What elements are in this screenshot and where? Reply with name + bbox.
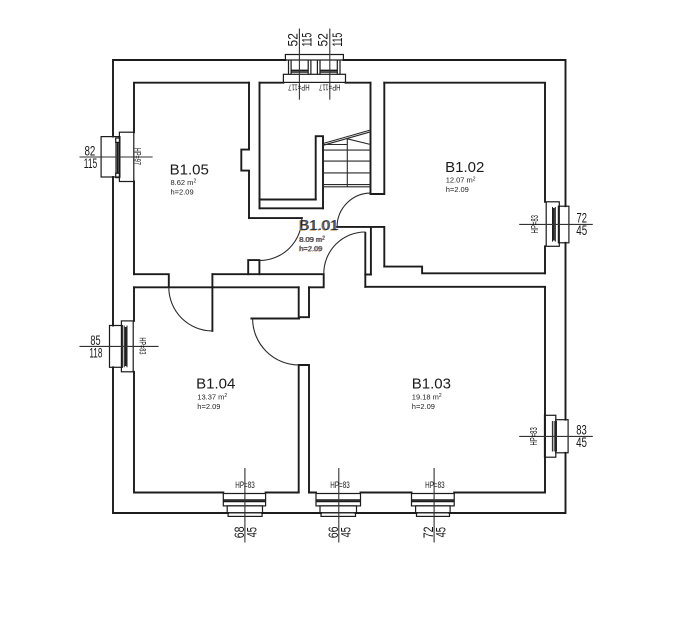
svg-text:19.18 m2: 19.18 m2 (412, 392, 442, 401)
svg-text:HP=83: HP=83 (528, 427, 539, 446)
svg-text:B1.03: B1.03 (412, 376, 451, 393)
svg-text:45: 45 (339, 527, 354, 538)
svg-text:B1.04: B1.04 (196, 376, 235, 393)
svg-text:HP=83: HP=83 (529, 215, 540, 234)
svg-text:45: 45 (576, 223, 587, 239)
svg-text:h=2.09: h=2.09 (299, 244, 322, 253)
svg-text:115: 115 (301, 33, 315, 47)
svg-text:45: 45 (576, 435, 587, 451)
svg-text:h=2.09: h=2.09 (171, 188, 194, 197)
svg-text:12.07 m2: 12.07 m2 (446, 176, 476, 185)
svg-text:45: 45 (245, 527, 260, 538)
svg-text:115: 115 (84, 157, 97, 171)
svg-text:8.09 m2: 8.09 m2 (299, 235, 325, 244)
svg-text:HP=83: HP=83 (330, 480, 349, 490)
svg-text:52: 52 (315, 33, 331, 46)
svg-text:HP=97: HP=97 (132, 148, 143, 165)
svg-text:h=2.09: h=2.09 (446, 185, 469, 194)
svg-text:B1.01: B1.01 (299, 217, 338, 234)
svg-text:HP=117: HP=117 (319, 82, 341, 91)
svg-text:8.62 m2: 8.62 m2 (171, 178, 197, 187)
svg-text:HP=83: HP=83 (137, 337, 148, 354)
svg-text:HP=83: HP=83 (425, 480, 444, 490)
svg-text:HP=117: HP=117 (288, 82, 310, 91)
svg-text:h=2.09: h=2.09 (412, 402, 435, 411)
svg-text:h=2.09: h=2.09 (197, 402, 220, 411)
svg-text:B1.02: B1.02 (445, 159, 484, 176)
svg-text:52: 52 (284, 33, 300, 46)
svg-text:HP=83: HP=83 (235, 480, 254, 490)
svg-text:13.37 m2: 13.37 m2 (197, 392, 227, 401)
svg-text:B1.05: B1.05 (170, 161, 209, 178)
svg-text:45: 45 (434, 527, 449, 538)
svg-text:115: 115 (331, 33, 345, 47)
svg-text:118: 118 (89, 346, 102, 361)
